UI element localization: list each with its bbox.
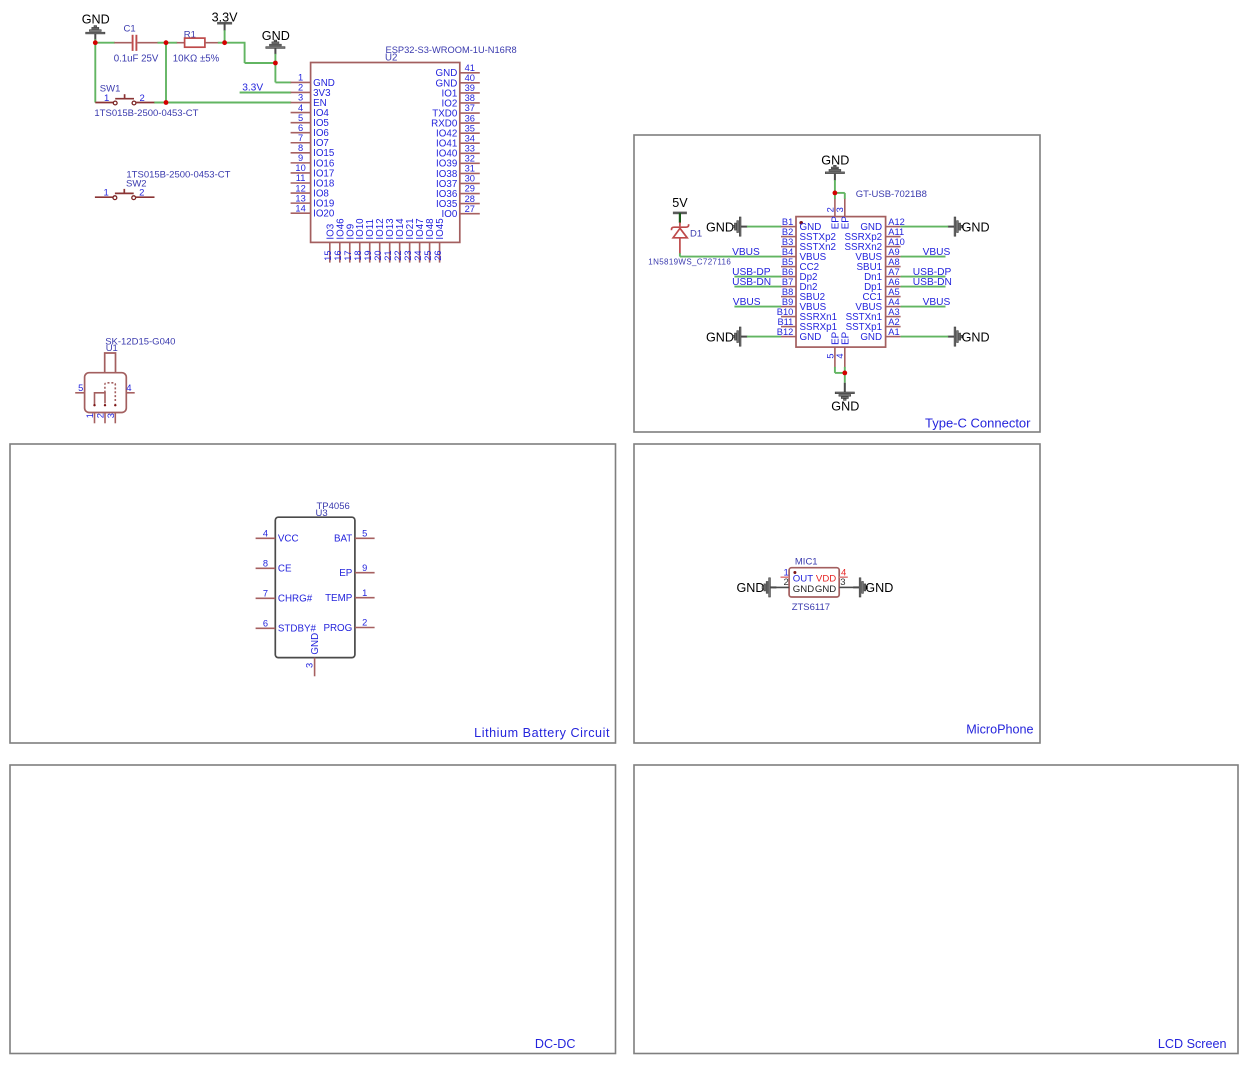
svg-text:36: 36 <box>465 113 475 123</box>
ground GND (top-left) <box>82 13 110 40</box>
wire EN net to U2 pin 3 <box>154 102 291 104</box>
wire EN node down to SW1 row <box>165 43 167 103</box>
svg-text:6: 6 <box>263 619 268 629</box>
svg-text:CE: CE <box>278 564 292 575</box>
svg-text:25: 25 <box>423 250 433 260</box>
ground GND (near U2) <box>262 29 290 54</box>
svg-text:B10: B10 <box>777 307 794 317</box>
power 5V <box>672 196 688 223</box>
svg-text:A6: A6 <box>888 277 899 287</box>
svg-text:2: 2 <box>96 413 106 418</box>
switch SW1 <box>94 84 198 120</box>
svg-text:B11: B11 <box>777 317 793 327</box>
svg-text:GND: GND <box>860 332 882 343</box>
ground GND (top of connector) <box>821 154 849 181</box>
svg-text:MicroPhone: MicroPhone <box>966 722 1033 736</box>
svg-text:GND: GND <box>800 332 822 343</box>
junction EN/SW1 <box>164 100 169 105</box>
wire 3.3V node to GND node (elbow) <box>225 43 276 63</box>
wire C1 left <box>95 42 115 44</box>
svg-text:5: 5 <box>362 529 367 539</box>
resistor R1 <box>173 29 220 64</box>
svg-text:VBUS: VBUS <box>732 247 760 258</box>
svg-text:Type-C Connector: Type-C Connector <box>925 416 1031 431</box>
wire top GND to EP pins <box>835 180 845 199</box>
svg-text:8: 8 <box>298 143 303 153</box>
svg-text:U2: U2 <box>385 52 397 63</box>
svg-text:32: 32 <box>465 154 475 164</box>
svg-text:PROG: PROG <box>323 623 352 634</box>
svg-text:GND: GND <box>865 581 893 595</box>
svg-text:22: 22 <box>393 250 403 260</box>
svg-text:B12: B12 <box>777 327 794 337</box>
svg-text:12: 12 <box>295 183 305 193</box>
svg-text:3: 3 <box>298 93 303 103</box>
svg-text:B8: B8 <box>782 287 793 297</box>
svg-text:38: 38 <box>465 93 475 103</box>
svg-text:40: 40 <box>465 73 475 83</box>
svg-text:20: 20 <box>373 250 383 260</box>
wire GND2 down to junction <box>274 54 276 63</box>
svg-text:GND: GND <box>737 581 765 595</box>
svg-text:4: 4 <box>263 529 268 539</box>
U1 pin 4 (right) <box>126 383 134 393</box>
U2 pins 15-26 (bottom): IO3 IO46 IO9 IO10 IO11 IO12 IO13 IO14 IO21 IO47 IO48 IO45 <box>323 218 446 263</box>
svg-text:A1: A1 <box>888 327 899 337</box>
net label USB-DP at B6 <box>732 267 781 278</box>
svg-text:OUT: OUT <box>793 573 813 584</box>
svg-text:EP: EP <box>840 216 851 230</box>
ground GND left of MIC1 <box>737 578 777 597</box>
svg-text:A11: A11 <box>888 227 904 237</box>
svg-text:B5: B5 <box>782 257 793 267</box>
svg-text:10KΩ ±5%: 10KΩ ±5% <box>173 54 220 65</box>
wire GND down to SW1 row <box>94 39 96 102</box>
svg-text:5: 5 <box>298 113 303 123</box>
svg-text:B3: B3 <box>782 237 793 247</box>
svg-text:17: 17 <box>343 250 353 260</box>
svg-text:34: 34 <box>465 133 475 143</box>
MIC1 pin 3 GND <box>815 577 854 595</box>
svg-text:GND: GND <box>706 330 734 344</box>
svg-text:GND: GND <box>82 13 110 27</box>
svg-text:U3: U3 <box>316 508 328 519</box>
svg-text:27: 27 <box>465 204 475 214</box>
svg-text:ZTS6117: ZTS6117 <box>792 602 830 613</box>
svg-text:CHRG#: CHRG# <box>278 594 313 605</box>
wire D1 to B4 VBUS <box>680 253 781 256</box>
svg-text:Lithium Battery Circuit: Lithium Battery Circuit <box>474 726 610 740</box>
svg-text:3: 3 <box>305 663 315 668</box>
wire C1 to EN node <box>158 42 167 44</box>
U3 right pins 5,9,1,2: BAT EP TEMP PROG <box>323 529 374 634</box>
svg-text:A7: A7 <box>888 267 899 277</box>
net label USB-DN at B7 <box>732 277 781 288</box>
svg-text:A10: A10 <box>888 237 905 247</box>
svg-text:TEMP: TEMP <box>325 593 353 604</box>
svg-text:2: 2 <box>298 83 303 93</box>
ground GND at A12 <box>948 217 990 236</box>
svg-text:DC-DC: DC-DC <box>535 1037 576 1051</box>
net label USB-DN at A6 <box>901 277 952 288</box>
svg-text:3: 3 <box>106 413 116 418</box>
U1 pin 5 (left) <box>75 383 84 393</box>
U3 left pins 4,8,7,6: VCC CE CHRG# STDBY# <box>256 529 317 635</box>
junction bottom EP <box>842 371 847 376</box>
connector J GT-USB-7021B8 body <box>796 189 927 347</box>
svg-text:6: 6 <box>298 123 303 133</box>
svg-text:LCD Screen: LCD Screen <box>1158 1037 1227 1051</box>
section box MicroPhone <box>634 444 1040 743</box>
svg-text:GT-USB-7021B8: GT-USB-7021B8 <box>856 189 927 200</box>
wire A1 to GND <box>901 336 949 338</box>
svg-text:GND: GND <box>962 220 990 234</box>
svg-text:EP: EP <box>339 568 353 579</box>
svg-text:GND: GND <box>310 633 321 655</box>
svg-text:A12: A12 <box>888 217 905 227</box>
wire R1 left <box>166 42 177 44</box>
ground GND (bottom of connector) <box>831 383 859 414</box>
U1 pins 1-3 (bottom) <box>85 413 116 424</box>
svg-text:GND: GND <box>706 220 734 234</box>
svg-text:13: 13 <box>295 193 305 203</box>
svg-text:B7: B7 <box>782 277 793 287</box>
svg-text:4: 4 <box>298 103 303 113</box>
svg-text:A5: A5 <box>888 287 899 297</box>
svg-text:SW1: SW1 <box>100 84 121 95</box>
ground GND at B12 <box>706 327 748 346</box>
svg-text:IO20: IO20 <box>313 209 335 220</box>
svg-text:11: 11 <box>296 173 306 183</box>
svg-text:23: 23 <box>403 250 413 260</box>
ground GND right of MIC1 <box>853 578 893 597</box>
svg-text:1: 1 <box>362 588 367 598</box>
U2 pins 1-14 (left): GND 3V3 EN IO4 IO5 IO6 IO7 IO15 IO16 IO17 IO18 IO8 IO19 IO20 <box>291 73 335 220</box>
section box DC-DC <box>10 765 616 1054</box>
ground GND at B1 <box>706 217 748 236</box>
net label USB-DP at A7 <box>901 267 952 278</box>
svg-text:30: 30 <box>465 174 475 184</box>
svg-text:GND: GND <box>793 584 814 595</box>
svg-text:B2: B2 <box>782 227 793 237</box>
svg-text:B6: B6 <box>782 267 793 277</box>
svg-text:0.1uF 25V: 0.1uF 25V <box>114 54 159 65</box>
svg-text:19: 19 <box>363 250 373 260</box>
svg-text:7: 7 <box>298 133 303 143</box>
wire R1 to 3.3V <box>218 42 225 44</box>
switch U1 SK-12D15-G040 <box>85 337 176 413</box>
MIC1 pin 1 OUT <box>781 568 814 585</box>
net label 3.3V at U2 pin 2 <box>240 82 292 93</box>
svg-text:10: 10 <box>295 163 305 173</box>
svg-text:21: 21 <box>383 250 393 260</box>
svg-text:IO45: IO45 <box>435 218 446 240</box>
svg-text:26: 26 <box>433 250 443 260</box>
wire 3.3V down <box>224 30 226 43</box>
svg-text:B9: B9 <box>782 297 793 307</box>
svg-text:41: 41 <box>465 63 475 73</box>
section box Lithium Battery Circuit <box>10 444 616 743</box>
svg-text:A9: A9 <box>888 247 899 257</box>
svg-text:1N5819WS_C727116: 1N5819WS_C727116 <box>648 258 731 267</box>
svg-text:A3: A3 <box>888 307 899 317</box>
MIC1 pin 4 VDD <box>816 568 848 585</box>
svg-text:5V: 5V <box>672 196 688 210</box>
junction 3.3V node <box>222 40 227 45</box>
svg-text:5: 5 <box>78 383 83 393</box>
svg-text:D1: D1 <box>690 229 702 240</box>
svg-text:1: 1 <box>298 73 303 83</box>
svg-text:A8: A8 <box>888 257 899 267</box>
junction GND/pin1 node <box>273 61 278 66</box>
svg-text:2: 2 <box>362 618 367 628</box>
wire B12 to GND <box>747 336 781 338</box>
svg-text:5: 5 <box>825 353 835 358</box>
svg-text:VCC: VCC <box>278 534 299 545</box>
svg-text:35: 35 <box>465 123 475 133</box>
wire bottom EP pins to GND <box>835 367 845 383</box>
capacitor C1 <box>114 24 159 65</box>
svg-text:B1: B1 <box>782 217 793 227</box>
GT-USB pins 5,4 EP (bottom) <box>825 331 851 367</box>
svg-text:9: 9 <box>298 153 303 163</box>
svg-text:MIC1: MIC1 <box>795 557 818 568</box>
IC U3 TP4056 body <box>275 501 355 658</box>
svg-text:8: 8 <box>263 559 268 569</box>
svg-text:4: 4 <box>835 353 845 358</box>
module U2 ESP32-S3-WROOM-1U-N16R8 body <box>311 45 517 242</box>
microphone MIC1 ZTS6117 body <box>789 557 839 614</box>
wire to U2 pin 1 <box>275 63 291 82</box>
GT-USB pins B1-B12 (left) <box>777 217 837 343</box>
wire A12 to GND <box>901 226 949 228</box>
svg-text:16: 16 <box>333 250 343 260</box>
svg-text:28: 28 <box>465 194 475 204</box>
svg-text:1: 1 <box>85 413 95 418</box>
svg-text:3: 3 <box>835 207 845 212</box>
svg-text:24: 24 <box>413 250 423 260</box>
net label VBUS at A9 <box>901 247 951 258</box>
ground GND at A1 <box>948 327 990 346</box>
svg-text:1TS015B-2500-0453-CT: 1TS015B-2500-0453-CT <box>94 108 198 119</box>
svg-text:GND: GND <box>962 330 990 344</box>
svg-text:29: 29 <box>465 184 475 194</box>
svg-text:2: 2 <box>825 207 835 212</box>
section box LCD Screen <box>634 765 1238 1054</box>
U2 pins 41-27 (right): GND GND IO1 IO2 TXD0 RXD0 IO42 IO41 IO40 IO39 IO38 IO37 IO36 IO35 IO0 <box>431 63 480 220</box>
svg-text:7: 7 <box>263 589 268 599</box>
junction EN node top <box>164 40 169 45</box>
svg-text:39: 39 <box>465 83 475 93</box>
svg-text:33: 33 <box>465 143 475 153</box>
net label VBUS at B9 <box>733 297 781 308</box>
svg-text:15: 15 <box>323 250 333 260</box>
svg-text:BAT: BAT <box>334 534 352 545</box>
power 3.3V <box>212 11 239 31</box>
svg-text:VDD: VDD <box>816 573 836 584</box>
diode D1 1N5819WS <box>648 222 731 266</box>
svg-text:A2: A2 <box>888 317 899 327</box>
GT-USB pins A12-A1 (right) <box>845 217 905 343</box>
svg-text:37: 37 <box>465 103 475 113</box>
svg-text:18: 18 <box>353 250 363 260</box>
svg-text:9: 9 <box>362 563 367 573</box>
junction at GND/C1 <box>93 40 98 45</box>
U3 bottom pin 3: GND <box>305 633 321 676</box>
MIC1 pin 2 GND <box>773 577 814 595</box>
svg-text:3: 3 <box>840 577 845 588</box>
svg-text:2: 2 <box>784 577 789 588</box>
svg-text:EP: EP <box>840 331 851 345</box>
svg-text:GND: GND <box>831 399 859 413</box>
svg-text:ESP32-S3-WROOM-1U-N16R8: ESP32-S3-WROOM-1U-N16R8 <box>386 45 517 55</box>
junction top EP <box>833 191 838 196</box>
svg-text:14: 14 <box>295 203 305 213</box>
svg-text:4: 4 <box>126 383 131 393</box>
section box Type-C Connector <box>634 135 1040 432</box>
switch SW2 <box>95 170 231 200</box>
svg-text:31: 31 <box>465 164 475 174</box>
svg-text:B4: B4 <box>782 247 793 257</box>
svg-text:C1: C1 <box>124 24 136 35</box>
svg-text:GND: GND <box>815 584 836 595</box>
svg-text:A4: A4 <box>888 297 899 307</box>
GT-USB pins 2,3 EP (top) <box>825 199 851 230</box>
net label VBUS at A4 <box>901 297 951 308</box>
wire B1 to GND <box>747 226 781 228</box>
